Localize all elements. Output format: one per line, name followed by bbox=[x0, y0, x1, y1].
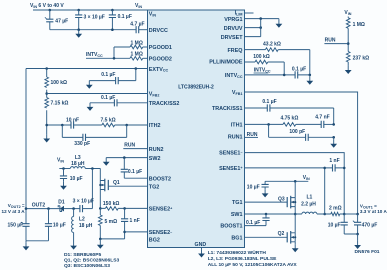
svg-text:TRACK/SS2: TRACK/SS2 bbox=[149, 101, 180, 107]
svg-text:10 nF: 10 nF bbox=[66, 117, 79, 123]
capacitor 0.1uF EXTVCC bbox=[89, 69, 136, 81]
svg-text:LTC3892EUH-2: LTC3892EUH-2 bbox=[178, 84, 214, 90]
svg-text:0.1 µF: 0.1 µF bbox=[292, 66, 306, 72]
svg-text:OUT2: OUT2 bbox=[32, 202, 46, 208]
svg-text:1 nF: 1 nF bbox=[329, 158, 339, 164]
svg-text:0.1 µF: 0.1 µF bbox=[101, 72, 115, 78]
resistor 100k divider top bbox=[45, 77, 49, 88]
capacitor 47uF input bulk bbox=[49, 10, 51, 30]
ground compensation bbox=[333, 137, 335, 139]
svg-text:330 pF: 330 pF bbox=[74, 141, 90, 147]
capacitor 100pF ITH1 bbox=[269, 124, 334, 137]
svg-text:3 × 10 µF: 3 × 10 µF bbox=[73, 198, 94, 204]
svg-text:Q3: BSC100N06LS3: Q3: BSC100N06LS3 bbox=[64, 263, 110, 269]
wire SW1 bbox=[245, 213, 296, 215]
wire DRVSET bbox=[245, 19, 261, 37]
wire SEPIC coupling riser bbox=[91, 169, 93, 209]
capacitor 10nF ITH2 bbox=[71, 121, 74, 128]
resistor 7.5k ITH2 bbox=[102, 123, 115, 127]
capacitor 10uF VIN right bbox=[264, 181, 266, 189]
ground out1 bbox=[357, 234, 359, 241]
svg-text:0.1 µF: 0.1 µF bbox=[128, 169, 142, 175]
svg-text:L2: L2 bbox=[79, 217, 85, 223]
svg-text:L2, L3: PG0936.183NL PULSE: L2, L3: PG0936.183NL PULSE bbox=[208, 256, 277, 262]
ground divider bbox=[43, 134, 50, 142]
capacitor 10uF output2 bbox=[48, 209, 50, 241]
wire VOUT2 rail bbox=[25, 69, 27, 224]
svg-text:5 mΩ: 5 mΩ bbox=[105, 219, 118, 225]
wire VOUT2 sense divider rail bbox=[46, 69, 48, 135]
capacitor 150uF output2 bbox=[22, 224, 29, 227]
svg-text:TG2: TG2 bbox=[149, 184, 159, 190]
resistor 1M run divider bbox=[347, 17, 349, 18]
wire FREQ down bbox=[309, 50, 311, 75]
ground IC GND pin bbox=[201, 248, 203, 250]
svg-text:TRACK/SS1: TRACK/SS1 bbox=[212, 106, 243, 112]
wire EXTVCC from VOUT2 bbox=[26, 68, 148, 70]
wire run divider bbox=[347, 28, 349, 51]
svg-text:DRVUV: DRVUV bbox=[224, 26, 243, 32]
resistor 4.75k ITH1 bbox=[283, 123, 296, 127]
svg-text:1 nF: 1 nF bbox=[130, 218, 140, 224]
svg-text:150 µF: 150 µF bbox=[8, 223, 24, 229]
svg-text:100 kΩ: 100 kΩ bbox=[51, 80, 68, 86]
svg-text:VIN: VIN bbox=[57, 158, 64, 164]
ground INTVCC bbox=[309, 75, 311, 77]
wire ILIM stub bbox=[245, 12, 254, 14]
capacitor 4.7nF ITH1 bbox=[321, 121, 324, 128]
diode D1 schottky bbox=[60, 206, 64, 212]
svg-text:FREQ: FREQ bbox=[228, 48, 243, 54]
wire Q3 source bbox=[294, 207, 296, 214]
svg-text:L1: 74439369022 WÜRTH: L1: 74439369022 WÜRTH bbox=[208, 249, 267, 256]
capacitor 3x10uF input bbox=[78, 10, 80, 30]
svg-text:10 µF: 10 µF bbox=[247, 185, 260, 191]
svg-text:PLLIN/MODE: PLLIN/MODE bbox=[209, 60, 243, 66]
node VIN rail junctions bbox=[49, 9, 52, 12]
capacitor 1nF SENSE2 filter bbox=[124, 208, 126, 239]
svg-text:ALL 10 µF 50 V, 12105C106KAT2A: ALL 10 µF 50 V, 12105C106KAT2A AVX bbox=[208, 262, 298, 268]
svg-text:4.7 nF: 4.7 nF bbox=[315, 115, 329, 121]
transistor Q2 bbox=[294, 214, 296, 233]
capacitor 4.7uF DRVCC bbox=[136, 26, 139, 33]
wire ITH1 bbox=[245, 123, 284, 125]
svg-text:3.3 V at 10 A: 3.3 V at 10 A bbox=[360, 209, 387, 214]
svg-text:SW2: SW2 bbox=[149, 156, 161, 162]
wire TG2 to Q1 gate bbox=[108, 185, 147, 187]
svg-text:D1: D1 bbox=[58, 199, 65, 205]
svg-text:18 µH: 18 µH bbox=[71, 161, 85, 167]
wire TG1 bbox=[245, 201, 288, 203]
svg-text:BG1: BG1 bbox=[231, 235, 242, 241]
svg-text:Q2: Q2 bbox=[278, 231, 285, 237]
svg-text:0.1 µF: 0.1 µF bbox=[101, 95, 115, 101]
svg-text:PGOOD2: PGOOD2 bbox=[149, 57, 172, 63]
svg-text:7.15 kΩ: 7.15 kΩ bbox=[51, 101, 69, 107]
transistor Q1 bbox=[99, 179, 108, 192]
svg-text:0.1 µF: 0.1 µF bbox=[262, 99, 276, 105]
wire DRVUV bbox=[245, 27, 261, 29]
svg-text:Q1, Q2: BSC028N06LS3: Q1, Q2: BSC028N06LS3 bbox=[64, 258, 119, 264]
svg-text:1 MΩ: 1 MΩ bbox=[131, 40, 143, 46]
svg-text:BOOST2: BOOST2 bbox=[149, 176, 171, 182]
ground SW2 bbox=[103, 158, 110, 166]
svg-text:PGOOD1: PGOOD1 bbox=[149, 45, 172, 51]
wire VPRG1 bbox=[245, 18, 279, 20]
wire to VOUT1 node bbox=[344, 213, 357, 215]
capacitor 0.1uF INTVCC bbox=[245, 74, 310, 76]
svg-text:3 × 10 µF: 3 × 10 µF bbox=[84, 15, 105, 21]
svg-text:12 V at 3 A: 12 V at 3 A bbox=[2, 209, 26, 214]
resistor 237k run divider bbox=[346, 52, 350, 63]
wire VIN stub right bbox=[265, 180, 308, 182]
svg-text:1 MΩ: 1 MΩ bbox=[131, 52, 143, 58]
svg-text:470 µF: 470 µF bbox=[362, 223, 378, 229]
svg-text:SENSE2–: SENSE2– bbox=[149, 230, 172, 236]
capacitor 470uF out1 bbox=[357, 214, 359, 234]
capacitor 10uF SEPIC input bbox=[63, 169, 65, 182]
wire PLLIN down bbox=[283, 62, 285, 75]
svg-text:47 µF: 47 µF bbox=[55, 19, 68, 25]
resistor 43.2k FREQ bbox=[245, 49, 310, 51]
capacitor 1nF sense1 filter bbox=[325, 167, 345, 169]
wire RUN2 bbox=[123, 148, 147, 150]
svg-text:Q3: Q3 bbox=[278, 196, 285, 202]
svg-text:1 MΩ: 1 MΩ bbox=[353, 22, 365, 28]
ground output2 bbox=[23, 242, 30, 250]
wire Q1 drain bbox=[92, 169, 100, 181]
wire SENSE2- bbox=[125, 231, 148, 233]
svg-text:4.7 µF: 4.7 µF bbox=[130, 21, 144, 27]
svg-text:RUN1: RUN1 bbox=[228, 135, 243, 141]
ground sense2 bbox=[99, 239, 101, 241]
resistor 1M PGOOD1 bbox=[130, 45, 143, 49]
capacitor 330pF ITH2 bbox=[62, 125, 126, 137]
resistor 5m sense2 bbox=[99, 208, 101, 239]
capacitor 0.1uF TRACK/SS1 bbox=[245, 107, 334, 109]
svg-text:237 kΩ: 237 kΩ bbox=[353, 56, 370, 62]
inductor L1 bbox=[295, 213, 325, 215]
resistor 7.15k divider bottom bbox=[45, 98, 49, 109]
svg-text:SENSE1+: SENSE1+ bbox=[219, 166, 242, 172]
wire VFB2 bbox=[47, 93, 148, 95]
svg-text:GND: GND bbox=[195, 242, 207, 248]
capacitor 0.1uF input bbox=[111, 10, 113, 30]
svg-text:100 pF: 100 pF bbox=[289, 129, 305, 135]
svg-text:VIN 6 V to 40 V: VIN 6 V to 40 V bbox=[30, 3, 64, 9]
inductor L2 bbox=[73, 209, 75, 242]
wire sense2 bottom bbox=[100, 238, 124, 240]
ground Q2 source bbox=[294, 242, 296, 244]
svg-text:10 µF: 10 µF bbox=[328, 223, 341, 229]
svg-text:ITH1: ITH1 bbox=[231, 123, 243, 129]
wire L3 input bbox=[59, 168, 70, 170]
wire SW2 bbox=[106, 157, 147, 159]
svg-text:RUN2: RUN2 bbox=[149, 147, 164, 153]
wire input ground rail bbox=[50, 29, 136, 31]
svg-text:INTVCC: INTVCC bbox=[86, 52, 103, 58]
svg-text:0.1 µF: 0.1 µF bbox=[118, 14, 132, 20]
svg-text:RUN: RUN bbox=[325, 38, 336, 44]
svg-text:SW1: SW1 bbox=[231, 212, 243, 218]
wire BG1 bbox=[245, 236, 288, 238]
resistor 100k PLLIN/MODE bbox=[245, 61, 285, 63]
wire output2 ground bbox=[26, 241, 49, 243]
svg-text:DRVCC: DRVCC bbox=[149, 28, 168, 34]
resistor 150k SENSE2+ filter bbox=[100, 207, 147, 209]
capacitor 3x10uF coupling bbox=[80, 205, 83, 212]
svg-text:VIN: VIN bbox=[303, 175, 310, 181]
capacitor 10uF out1 bbox=[344, 214, 357, 234]
IC U1 LTC3892EUH-2 bbox=[148, 10, 245, 248]
svg-text:VIN: VIN bbox=[344, 10, 351, 16]
capacitor 0.1uF BOOST1 bbox=[245, 214, 267, 226]
svg-text:7.5 kΩ: 7.5 kΩ bbox=[101, 117, 116, 123]
ground run divider bbox=[347, 62, 349, 66]
resistor 1M PGOOD2 bbox=[130, 57, 143, 61]
wire VFB1 feedback bbox=[245, 92, 358, 214]
svg-text:2 mΩ: 2 mΩ bbox=[329, 205, 342, 211]
ground input caps bbox=[77, 28, 80, 31]
node VFB2 tap bbox=[45, 92, 48, 95]
svg-text:43.2 kΩ: 43.2 kΩ bbox=[263, 42, 281, 48]
svg-text:100 kΩ: 100 kΩ bbox=[253, 54, 270, 60]
svg-text:TG1: TG1 bbox=[232, 200, 242, 206]
wire Q1 source to sense bbox=[99, 190, 101, 209]
wire SENSE1- bbox=[245, 153, 345, 214]
resistor 2m sense1 bbox=[325, 213, 345, 215]
svg-text:SENSE1–: SENSE1– bbox=[219, 151, 242, 157]
svg-text:DRVSET: DRVSET bbox=[221, 35, 243, 41]
svg-text:D1: SBR8U60P5: D1: SBR8U60P5 bbox=[64, 252, 102, 258]
svg-text:2.2 µH: 2.2 µH bbox=[301, 201, 316, 207]
svg-text:150 kΩ: 150 kΩ bbox=[103, 201, 120, 207]
svg-text:10 µF: 10 µF bbox=[53, 223, 66, 229]
wire VIN top rail bbox=[33, 9, 148, 11]
svg-text:Q1: Q1 bbox=[113, 180, 120, 186]
svg-text:0.1 µF: 0.1 µF bbox=[246, 220, 260, 226]
svg-text:DN576 F01: DN576 F01 bbox=[355, 249, 380, 255]
wire OUT2 bbox=[26, 208, 60, 210]
svg-text:SENSE2+: SENSE2+ bbox=[149, 206, 172, 212]
svg-text:RUN: RUN bbox=[124, 143, 135, 149]
transistor Q3 bbox=[294, 181, 296, 197]
capacitor 0.1uF BOOST2 bbox=[124, 158, 147, 179]
svg-text:BOOST1: BOOST1 bbox=[220, 224, 242, 230]
svg-text:10 µF: 10 µF bbox=[70, 176, 83, 182]
capacitor 0.1uF TRACK/SS2 bbox=[90, 102, 148, 104]
ground VPRG1 group bbox=[278, 19, 280, 20]
svg-text:18 µH: 18 µH bbox=[79, 223, 93, 229]
svg-text:4.75 kΩ: 4.75 kΩ bbox=[280, 116, 298, 122]
svg-text:VIN: VIN bbox=[135, 3, 142, 9]
wire ITH2 bbox=[47, 124, 148, 126]
wire SENSE1+ bbox=[245, 168, 325, 214]
svg-text:ITH2: ITH2 bbox=[149, 123, 161, 129]
svg-text:VPRG1: VPRG1 bbox=[224, 17, 242, 23]
wire SS1 down bbox=[333, 108, 335, 124]
svg-text:L1: L1 bbox=[306, 195, 312, 201]
wire INTVCC to pull-ups bbox=[86, 47, 130, 58]
inductor L3 bbox=[70, 167, 85, 169]
svg-text:BG2: BG2 bbox=[149, 237, 160, 243]
